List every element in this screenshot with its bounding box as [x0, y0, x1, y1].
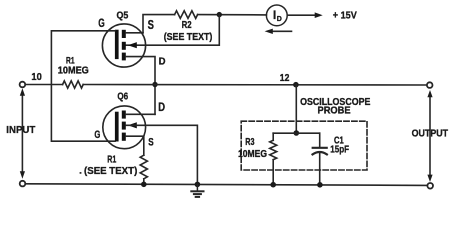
INPUT double arrow: [21, 94, 23, 174]
ground: [196, 185, 198, 191]
svg-text:R1: R1: [107, 153, 116, 165]
svg-text:S: S: [148, 18, 154, 32]
wire top rail left segment (Q5 source to R2): [143, 15, 175, 33]
resistor R1 (SEE TEXT): [140, 155, 147, 179]
svg-text:Q6: Q6: [117, 91, 128, 103]
svg-text:12: 12: [280, 72, 290, 84]
svg-text:OUTPUT: OUTPUT: [412, 128, 449, 140]
svg-text:15pF: 15pF: [330, 145, 349, 156]
transistor Q6 gate bar: [115, 112, 119, 142]
svg-text:S: S: [148, 137, 153, 149]
svg-text:Q5: Q5: [117, 9, 129, 21]
transistor Q6 substrate arrow: [128, 122, 137, 128]
wire middle rail to output terminal: [83, 84, 427, 87]
transistor Q6 source lead (pin S, bottom): [126, 136, 144, 155]
OUTPUT double arrow: [429, 96, 431, 177]
node junction dot ground: [195, 182, 201, 188]
capacitor C1 15pF: [319, 133, 321, 147]
svg-text:D: D: [159, 56, 166, 68]
resistor R3 10MEG: [272, 133, 274, 140]
transistor Q6 drain lead (pin D, top): [126, 113, 155, 115]
svg-text:10MEG: 10MEG: [238, 149, 267, 160]
svg-text:R2: R2: [182, 19, 192, 31]
arrow current direction (left): [270, 30, 292, 32]
svg-text:10: 10: [31, 71, 42, 83]
node drain junction dot: [152, 82, 157, 87]
svg-text:10MEG: 10MEG: [58, 65, 89, 76]
transistor Q6 channel segments: [122, 111, 126, 119]
terminal input node 10: [20, 82, 26, 88]
node junction dot C1 bottom: [317, 182, 323, 188]
svg-text:+ 15V: + 15V: [333, 10, 357, 22]
svg-text:(SEE TEXT): (SEE TEXT): [164, 32, 213, 43]
transistor Q6 body circle: [103, 106, 146, 149]
wire probe internal: [273, 132, 320, 134]
wire Q6 substrate to ground: [126, 125, 197, 184]
wire node 12 to probe: [295, 85, 297, 133]
transistor Q5 drain lead (pin D, bottom): [126, 57, 155, 115]
node 12 junction dot: [293, 82, 299, 88]
label R1 value (SEE TEXT) lower: [80, 172, 82, 174]
wire middle rail input segment: [25, 84, 62, 86]
node junction dot R3 bottom: [270, 182, 276, 188]
transistor Q5 channel segments: [122, 30, 126, 38]
svg-text:G: G: [98, 18, 105, 30]
terminal input bottom: [20, 181, 26, 187]
transistor Q5 body circle: [102, 24, 145, 67]
terminal output bottom: [427, 183, 433, 189]
resistor R2: [175, 11, 198, 19]
wire Q5 gate to Q6 gate: [51, 31, 115, 141]
wire Q5 substrate loop: [126, 15, 219, 46]
resistor R1 10MEG: [63, 81, 84, 88]
transistor Q5 gate bar: [115, 30, 119, 59]
oscilloscope probe dashed box: [241, 121, 367, 170]
wire bottom rail: [26, 184, 428, 186]
svg-text:PROBE: PROBE: [318, 105, 351, 116]
svg-text:I: I: [273, 10, 276, 22]
node junction dot R1 source: [141, 182, 147, 188]
wire top rail right segment (R2 to meter): [198, 14, 267, 16]
svg-text:D: D: [158, 102, 165, 114]
node junction dot R2/substrate: [217, 12, 222, 17]
svg-text:(SEE TEXT): (SEE TEXT): [84, 165, 137, 177]
arrow to +15V supply: [287, 14, 315, 16]
svg-text:INPUT: INPUT: [6, 124, 36, 136]
svg-text:D: D: [277, 16, 282, 23]
terminal output top: [427, 82, 433, 88]
svg-text:R3: R3: [245, 137, 255, 148]
node junction dot probe top: [294, 130, 300, 136]
transistor Q5 substrate arrow: [128, 42, 137, 48]
transistor Q5 source lead (pin S, top): [126, 32, 143, 34]
meter U1 ID current meter: [266, 5, 287, 26]
wire R1 to bottom rail: [143, 179, 145, 185]
svg-text:G: G: [94, 129, 100, 141]
